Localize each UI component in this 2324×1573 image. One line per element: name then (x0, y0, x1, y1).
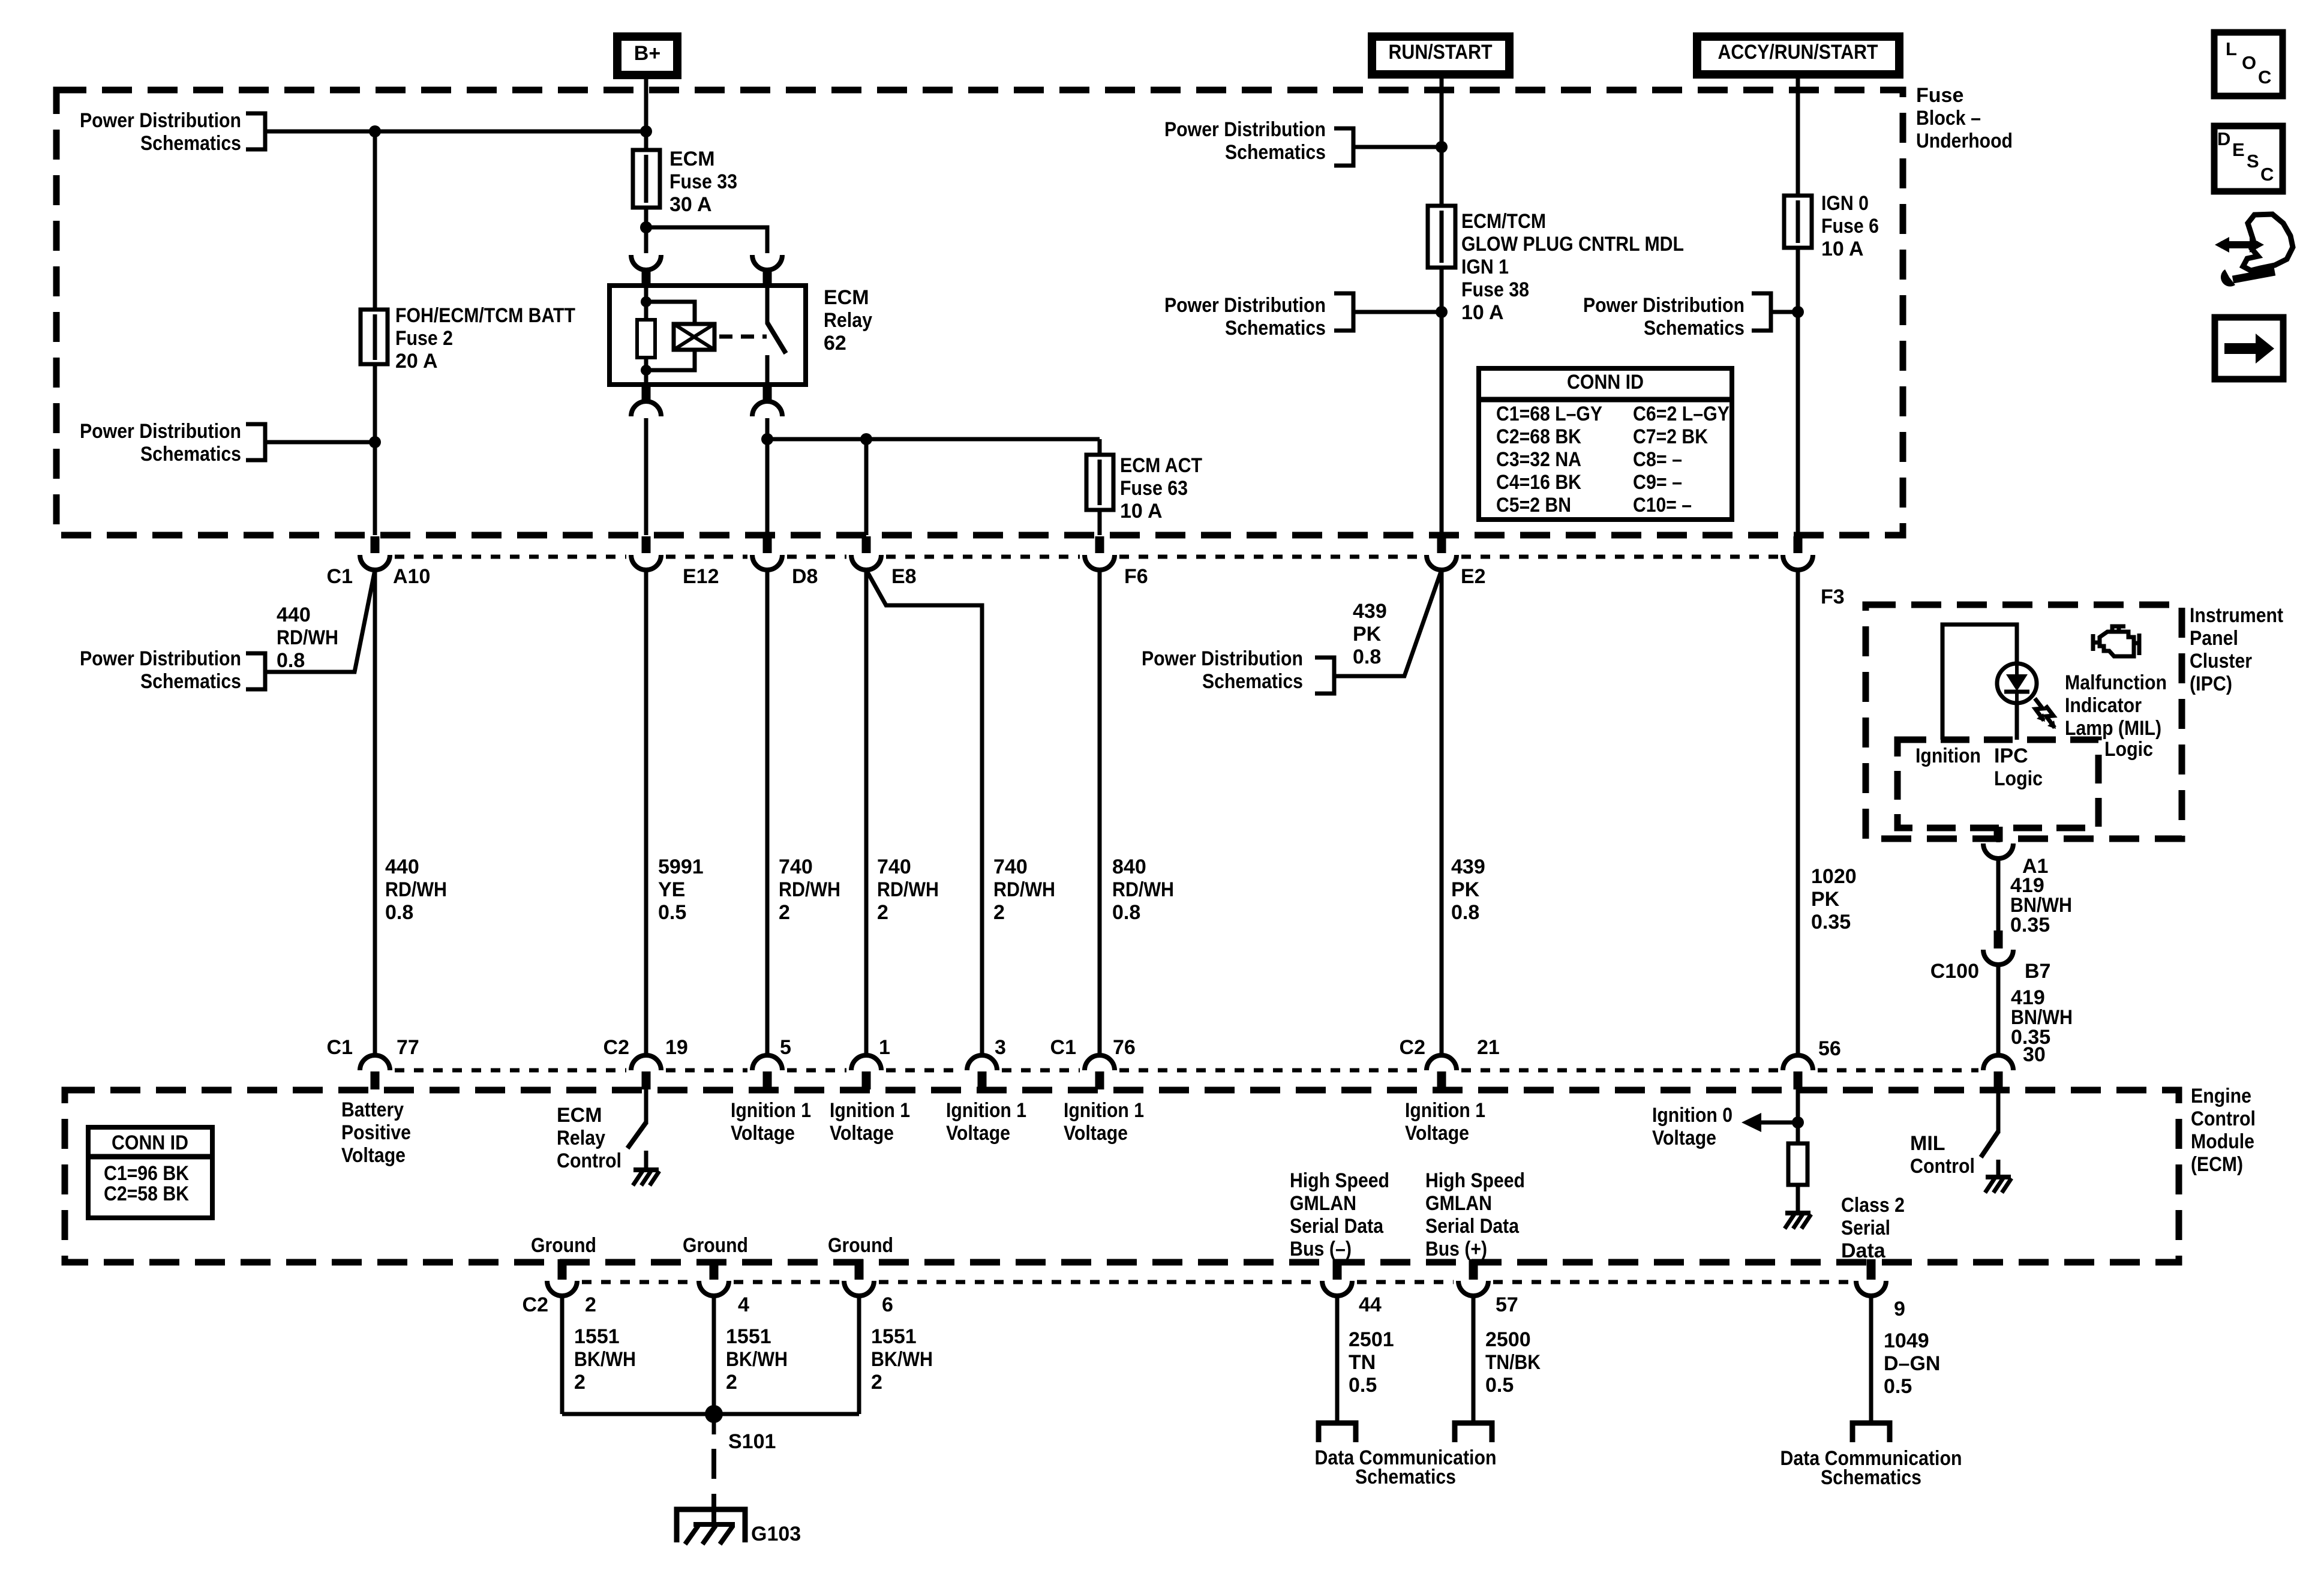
fuse F38 ECM/TCM GLOW PLUG (1428, 206, 1455, 268)
svg-text:Fuse 2: Fuse 2 (395, 327, 453, 350)
wire 440 RD/WH to ECM pin 77 (373, 569, 377, 1054)
svg-text:ECM ACT: ECM ACT (1120, 454, 1202, 477)
node junction below Fuse 38 (1436, 306, 1448, 318)
reference Power Distribution Schematics (RUN/START top) (1334, 128, 1353, 166)
svg-text:B+: B+ (634, 42, 660, 65)
svg-text:21: 21 (1477, 1036, 1500, 1059)
connector pin 5 ECM (752, 1055, 782, 1070)
svg-text:0.8: 0.8 (1451, 901, 1479, 924)
fuse F2 FOH/ECM/TCM BATT (361, 310, 388, 364)
svg-text:C9= –: C9= – (1633, 471, 1682, 494)
connector D8 fuse block (763, 536, 772, 553)
svg-text:4: 4 (738, 1293, 749, 1316)
svg-text:Voltage: Voltage (1652, 1127, 1716, 1149)
svg-text:D: D (2217, 128, 2230, 149)
svg-text:Bus (–): Bus (–) (1290, 1238, 1352, 1260)
svg-text:0.8: 0.8 (277, 649, 305, 672)
svg-text:Voltage: Voltage (341, 1144, 406, 1167)
IPC logic wire from LED (2015, 703, 2019, 740)
MIL indicator LED (1997, 664, 2037, 703)
LED light arrows (2035, 698, 2056, 729)
svg-text:ECM: ECM (824, 286, 869, 309)
svg-text:F6: F6 (1124, 565, 1148, 588)
svg-text:19: 19 (665, 1036, 688, 1059)
svg-text:2500: 2500 (1485, 1328, 1531, 1351)
svg-text:C: C (2260, 164, 2274, 185)
svg-text:0.5: 0.5 (658, 901, 686, 924)
svg-text:Power Distribution: Power Distribution (80, 109, 241, 132)
wire ACCY/RUN/START to Fuse 6 (1796, 74, 1800, 535)
wire relay bus to Fuse 63 (1098, 439, 1102, 535)
svg-text:Power Distribution: Power Distribution (1142, 647, 1303, 670)
splice S101 dashed wire (712, 1414, 716, 1434)
svg-text:(IPC): (IPC) (2190, 673, 2232, 695)
svg-text:Schematics: Schematics (1821, 1466, 1921, 1489)
svg-text:77: 77 (397, 1036, 419, 1059)
svg-text:C1: C1 (327, 565, 353, 588)
svg-text:Schematics: Schematics (140, 132, 241, 155)
svg-text:C3=32 NA: C3=32 NA (1496, 448, 1581, 471)
svg-text:Voltage: Voltage (731, 1122, 795, 1145)
svg-text:C100: C100 (1930, 960, 1979, 983)
svg-text:Control: Control (1910, 1155, 1975, 1178)
wire 1551 BK/WH pin 2 (560, 1295, 565, 1414)
connector A1 IPC (1983, 843, 2013, 858)
connector row ECM top (dotted) (395, 1068, 1978, 1073)
svg-text:D–GN: D–GN (1884, 1352, 1940, 1375)
reference Power Distribution Schematics (RUN/START bottom) (1334, 293, 1353, 331)
svg-text:0.5: 0.5 (1884, 1375, 1912, 1398)
wire 2500 TN/BK (1472, 1295, 1476, 1423)
svg-text:10 A: 10 A (1461, 301, 1504, 324)
svg-text:2: 2 (574, 1371, 585, 1394)
node junction at Fuse 33 feed (640, 125, 652, 137)
connector pin 2 ECM ground (558, 1259, 567, 1280)
svg-text:Ignition 0: Ignition 0 (1652, 1104, 1733, 1127)
relay U62 ECM Relay box (609, 286, 806, 385)
connector pin 77 ECM (360, 1055, 390, 1070)
wire branch to power distribution (440) (265, 570, 375, 672)
reference Power Distribution Schematics (mid left) (246, 424, 265, 460)
relay switch blade (765, 286, 770, 324)
svg-text:5991: 5991 (658, 855, 704, 878)
connector pin 30 ECM (1983, 1055, 2013, 1070)
off-page connector pin 9 (1852, 1423, 1890, 1442)
svg-text:Panel: Panel (2190, 627, 2238, 650)
svg-text:High Speed: High Speed (1290, 1169, 1389, 1192)
svg-text:B7: B7 (2025, 960, 2050, 983)
svg-text:Data: Data (1841, 1239, 1886, 1262)
ground at class 2 resistor (1785, 1211, 1810, 1215)
svg-text:Schematics: Schematics (1355, 1466, 1456, 1488)
svg-text:20 A: 20 A (395, 350, 438, 373)
svg-text:RD/WH: RD/WH (1112, 878, 1174, 901)
svg-text:Class 2: Class 2 (1841, 1194, 1905, 1217)
svg-text:Voltage: Voltage (830, 1122, 894, 1145)
svg-text:C2=68 BK: C2=68 BK (1496, 425, 1581, 448)
svg-text:Instrument: Instrument (2190, 604, 2283, 627)
svg-text:GMLAN: GMLAN (1290, 1192, 1356, 1215)
svg-text:Battery: Battery (341, 1098, 404, 1121)
svg-text:Bus (+): Bus (+) (1425, 1238, 1487, 1260)
connector pin 9 ECM (1867, 1259, 1876, 1280)
connector pin 1 ECM (851, 1055, 881, 1070)
wire 5991 YE to ECM pin 19 (644, 569, 648, 1054)
svg-text:1551: 1551 (726, 1325, 771, 1348)
IPC internal circuit loop (1942, 625, 2017, 740)
svg-text:30 A: 30 A (669, 193, 712, 216)
svg-text:PK: PK (1811, 888, 1840, 911)
svg-text:Engine: Engine (2191, 1085, 2251, 1107)
svg-text:57: 57 (1496, 1293, 1518, 1316)
icon forward arrow box (2215, 317, 2283, 379)
svg-text:Positive: Positive (341, 1121, 411, 1144)
svg-text:RD/WH: RD/WH (277, 626, 338, 649)
svg-text:TN/BK: TN/BK (1485, 1351, 1541, 1374)
svg-text:Ignition 1: Ignition 1 (946, 1099, 1026, 1122)
connector E12 fuse block (642, 536, 651, 553)
svg-text:Control: Control (2191, 1107, 2256, 1130)
wire pin 56 internal (1796, 1088, 1800, 1143)
svg-text:Cluster: Cluster (2190, 650, 2252, 673)
svg-text:E: E (2232, 139, 2245, 160)
connector pin 57 ECM (1469, 1259, 1478, 1280)
svg-text:(ECM): (ECM) (2191, 1153, 2243, 1176)
wire 439 PK to ECM pin 21 (1440, 569, 1444, 1054)
fuse F63 ECM ACT (1086, 455, 1113, 510)
svg-text:E2: E2 (1461, 565, 1486, 588)
connector pin 4 ECM ground (710, 1259, 719, 1280)
svg-text:C2: C2 (523, 1293, 548, 1316)
svg-text:E12: E12 (683, 565, 719, 588)
svg-text:Power Distribution: Power Distribution (80, 420, 241, 443)
svg-text:Fuse 38: Fuse 38 (1461, 278, 1529, 301)
wire branch E8 to pin 3 (866, 570, 982, 1054)
IPC logic dashed box (1897, 740, 2098, 828)
svg-text:2: 2 (993, 901, 1005, 924)
node junction below Fuse 33 (640, 221, 652, 233)
wire relay 85 to E12 (644, 418, 648, 535)
svg-text:S101: S101 (728, 1430, 776, 1453)
svg-text:High Speed: High Speed (1425, 1169, 1525, 1192)
relay terminal 87 socket (763, 385, 772, 401)
svg-text:3: 3 (995, 1036, 1006, 1059)
svg-text:C6=2 L–GY: C6=2 L–GY (1633, 403, 1730, 425)
svg-text:Fuse 33: Fuse 33 (669, 170, 737, 193)
svg-text:Ground: Ground (828, 1234, 893, 1257)
svg-text:G103: G103 (751, 1523, 801, 1545)
node relay coil bottom (641, 365, 651, 376)
svg-text:GLOW PLUG CNTRL MDL: GLOW PLUG CNTRL MDL (1461, 233, 1684, 256)
connector pin 76 ECM (1085, 1055, 1115, 1070)
connector A1 stub (1994, 827, 2003, 842)
svg-text:439: 439 (1451, 855, 1485, 878)
svg-text:10 A: 10 A (1120, 500, 1163, 523)
reference Power Distribution Schematics (ACCY) (1752, 293, 1771, 331)
wire drop to E8 (864, 439, 869, 535)
svg-text:C: C (2258, 67, 2271, 88)
svg-text:C1: C1 (1050, 1036, 1076, 1059)
svg-text:Relay: Relay (557, 1127, 605, 1149)
wire 1551 BK/WH pin 4 (712, 1295, 716, 1414)
svg-text:Schematics: Schematics (140, 670, 241, 693)
svg-text:C1: C1 (327, 1036, 353, 1059)
svg-text:2501: 2501 (1349, 1328, 1394, 1351)
wire to relay switch side (646, 227, 767, 253)
IPC dashed box (1866, 605, 2182, 839)
svg-text:Fuse 63: Fuse 63 (1120, 477, 1188, 500)
svg-text:Logic: Logic (2104, 738, 2153, 761)
ground bus wire (562, 1412, 859, 1416)
svg-text:6: 6 (882, 1293, 893, 1316)
connector pin 3 ECM (967, 1055, 997, 1070)
svg-text:5: 5 (780, 1036, 791, 1059)
svg-text:BK/WH: BK/WH (871, 1348, 933, 1371)
wire resistor to ground (1796, 1185, 1800, 1213)
wire 740 RD/WH D8 to pin 5 (765, 569, 770, 1054)
off-page connector pin 57 (1455, 1423, 1492, 1442)
svg-text:ECM: ECM (557, 1104, 602, 1127)
wire relay 87 to D8 (765, 418, 770, 535)
fuse block underhood dashed box (56, 90, 1903, 535)
svg-text:Ground: Ground (683, 1234, 748, 1257)
svg-text:CONN ID: CONN ID (112, 1131, 188, 1154)
svg-text:BK/WH: BK/WH (574, 1348, 636, 1371)
svg-text:RD/WH: RD/WH (385, 878, 447, 901)
icon hand with wrench (2215, 214, 2293, 287)
connector row C1/C2 fuse block (dotted) (395, 555, 1778, 559)
svg-text:RD/WH: RD/WH (877, 878, 939, 901)
node relay coil top (641, 296, 651, 307)
power feed ACCY/RUN/START (1697, 37, 1899, 74)
svg-text:56: 56 (1818, 1037, 1841, 1060)
svg-text:740: 740 (877, 855, 911, 878)
connector E8 fuse block (862, 536, 871, 553)
svg-text:IGN 0: IGN 0 (1821, 192, 1869, 215)
connector pin 56 ECM (1783, 1055, 1813, 1070)
node junction relay output (761, 433, 773, 445)
svg-text:2: 2 (871, 1371, 882, 1394)
svg-text:BK/WH: BK/WH (726, 1348, 788, 1371)
node junction at Fuse 2 feed (369, 125, 381, 137)
reference Power Distribution Schematics (top left) (246, 113, 265, 149)
svg-text:Voltage: Voltage (946, 1122, 1010, 1145)
svg-text:9: 9 (1894, 1298, 1905, 1320)
ECM relay control switch (644, 1088, 648, 1124)
svg-text:D8: D8 (792, 565, 818, 588)
wire RUN/START to Fuse 38 (1440, 74, 1444, 535)
ground at MIL control (1986, 1175, 2011, 1179)
connector A10 fuse block (371, 536, 380, 553)
svg-text:C2: C2 (603, 1036, 629, 1059)
svg-text:Serial Data: Serial Data (1425, 1215, 1520, 1238)
svg-text:Serial Data: Serial Data (1290, 1215, 1384, 1238)
svg-text:L: L (2226, 38, 2237, 59)
svg-text:1551: 1551 (871, 1325, 917, 1348)
svg-text:Schematics: Schematics (1202, 670, 1303, 693)
svg-text:740: 740 (779, 855, 813, 878)
svg-text:C2: C2 (1400, 1036, 1425, 1059)
svg-text:RD/WH: RD/WH (993, 878, 1055, 901)
relay coil winding box (646, 302, 695, 324)
wire B+ feed horizontal (265, 130, 646, 134)
svg-text:FOH/ECM/TCM BATT: FOH/ECM/TCM BATT (395, 304, 575, 327)
svg-text:O: O (2242, 52, 2256, 73)
svg-text:Fuse: Fuse (1916, 84, 1963, 107)
svg-text:GMLAN: GMLAN (1425, 1192, 1492, 1215)
svg-text:Schematics: Schematics (1225, 317, 1326, 340)
off-page connector pin 44 (1319, 1423, 1356, 1442)
connector pin 19 ECM (631, 1055, 661, 1070)
wire B+ to ECM relay (644, 75, 648, 253)
wire 740 RD/WH E8 to pin 1 (864, 569, 869, 1054)
relay coil branch wires (644, 286, 648, 320)
svg-text:YE: YE (658, 878, 685, 901)
icon DESC box (2214, 126, 2283, 191)
svg-text:C10= –: C10= – (1633, 494, 1692, 517)
svg-text:Logic: Logic (1994, 767, 2043, 790)
fuse F33 ECM (633, 150, 660, 208)
wire 419 BN/WH upper (1996, 858, 2001, 948)
connector row ECM bottom (dotted) (582, 1280, 1851, 1284)
relay terminal 85 socket (642, 385, 651, 401)
fuse F6 IGN 0 (1784, 196, 1812, 248)
svg-text:440: 440 (385, 855, 419, 878)
wire 2501 TN (1335, 1295, 1340, 1423)
svg-text:PK: PK (1353, 623, 1382, 646)
svg-text:1: 1 (879, 1036, 890, 1059)
svg-text:440: 440 (277, 604, 311, 626)
svg-text:Ignition: Ignition (1915, 745, 1981, 767)
svg-text:A10: A10 (393, 565, 430, 588)
svg-text:IGN 1: IGN 1 (1461, 256, 1509, 278)
svg-text:C1=96 BK: C1=96 BK (104, 1162, 189, 1185)
svg-text:0.5: 0.5 (1349, 1374, 1377, 1397)
connector pin 21 ECM (1427, 1055, 1457, 1070)
svg-text:Power Distribution: Power Distribution (80, 647, 241, 670)
svg-text:Ignition 1: Ignition 1 (731, 1099, 811, 1122)
wire relay output bus (767, 437, 1100, 442)
ECM dashed box (65, 1090, 2179, 1262)
svg-text:1049: 1049 (1884, 1329, 1929, 1352)
svg-text:ECM: ECM (669, 148, 715, 170)
svg-text:62: 62 (824, 332, 846, 355)
node junction below Fuse 6 (1792, 306, 1804, 318)
svg-text:Fuse 6: Fuse 6 (1821, 215, 1879, 238)
svg-text:C2=58 BK: C2=58 BK (104, 1182, 189, 1205)
power feed B+ (617, 37, 677, 75)
svg-text:Relay: Relay (824, 309, 872, 332)
svg-text:30: 30 (2023, 1043, 2046, 1066)
svg-text:0.35: 0.35 (2010, 914, 2050, 936)
svg-text:IPC: IPC (1994, 745, 2028, 767)
reference Power Distribution Schematics (A10 branch) (246, 653, 265, 689)
connector E2 fuse block (1437, 536, 1446, 553)
svg-text:Lamp (MIL): Lamp (MIL) (2065, 717, 2161, 740)
svg-text:ECM/TCM: ECM/TCM (1461, 210, 1546, 233)
svg-text:0.8: 0.8 (1112, 901, 1140, 924)
svg-text:Power Distribution: Power Distribution (1164, 118, 1326, 141)
node junction below Fuse 2 (369, 436, 381, 448)
svg-text:Block –: Block – (1916, 107, 1981, 130)
relay actuation dashed link (719, 335, 767, 339)
svg-text:F3: F3 (1821, 586, 1845, 608)
svg-text:1020: 1020 (1811, 865, 1857, 888)
ground at relay control (633, 1167, 659, 1172)
svg-text:76: 76 (1113, 1036, 1136, 1059)
wire 840 RD/WH to pin 76 (1098, 569, 1102, 1054)
svg-text:C1=68 L–GY: C1=68 L–GY (1496, 403, 1602, 425)
svg-text:2: 2 (726, 1371, 737, 1394)
svg-text:E8: E8 (891, 565, 917, 588)
wire 1551 BK/WH pin 6 (857, 1295, 861, 1414)
icon LOC box (2214, 32, 2283, 96)
node splice S101 (705, 1405, 723, 1423)
wire branch E2 to power distribution (439) (1334, 570, 1442, 676)
wire IPC logic to connector A1 (1996, 828, 2001, 842)
svg-text:Malfunction: Malfunction (2065, 671, 2167, 694)
svg-text:Ignition 1: Ignition 1 (1064, 1099, 1144, 1122)
svg-text:0.8: 0.8 (385, 901, 413, 924)
resistor class 2 pull-up (1788, 1143, 1807, 1185)
svg-text:C7=2 BK: C7=2 BK (1633, 425, 1708, 448)
wire Fuse 2 column (373, 131, 377, 535)
connector F3 fuse block (1794, 536, 1803, 553)
svg-text:Schematics: Schematics (1644, 317, 1744, 340)
svg-text:ACCY/RUN/START: ACCY/RUN/START (1718, 41, 1878, 64)
svg-text:1551: 1551 (574, 1325, 620, 1348)
connector pin 6 ECM ground (855, 1259, 864, 1280)
svg-text:PK: PK (1451, 878, 1480, 901)
wire 1049 D-GN (1869, 1295, 1873, 1423)
MIL control switch (1996, 1088, 2001, 1133)
svg-text:2: 2 (877, 901, 888, 924)
svg-text:Serial: Serial (1841, 1217, 1890, 1239)
svg-text:Schematics: Schematics (1225, 141, 1326, 164)
ground G103 (677, 1509, 745, 1542)
svg-text:Indicator: Indicator (2065, 694, 2142, 717)
svg-text:RD/WH: RD/WH (779, 878, 840, 901)
svg-text:Ignition 1: Ignition 1 (1405, 1099, 1485, 1122)
wire 1020 PK to ECM pin 56 (1796, 569, 1800, 1054)
svg-text:2: 2 (585, 1293, 596, 1316)
ECM CONN ID table (88, 1127, 212, 1218)
svg-text:C4=16 BK: C4=16 BK (1496, 471, 1581, 494)
relay terminal 86 socket (631, 255, 661, 270)
svg-text:Ground: Ground (531, 1234, 596, 1257)
relay coil resistor (637, 320, 655, 358)
node junction RUN/START top (1436, 141, 1448, 153)
svg-text:MIL: MIL (1910, 1132, 1945, 1155)
node junction ignition 0 (1792, 1116, 1804, 1128)
svg-text:Voltage: Voltage (1064, 1122, 1128, 1145)
node junction to E8 (860, 433, 872, 445)
power feed RUN/START (1372, 37, 1509, 74)
svg-text:TN: TN (1349, 1351, 1376, 1374)
wire 419 BN/WH lower (1996, 964, 2001, 1054)
svg-text:C8= –: C8= – (1633, 448, 1682, 471)
svg-text:Underhood: Underhood (1916, 130, 2013, 152)
fuse block CONN ID table (1479, 368, 1732, 520)
svg-text:840: 840 (1112, 855, 1146, 878)
svg-text:Power Distribution: Power Distribution (1164, 294, 1326, 317)
svg-text:RUN/START: RUN/START (1389, 41, 1493, 64)
svg-text:Control: Control (557, 1149, 621, 1172)
svg-text:0.8: 0.8 (1353, 646, 1381, 668)
svg-text:0.5: 0.5 (1485, 1374, 1514, 1397)
svg-text:Module: Module (2191, 1130, 2254, 1153)
svg-text:Ignition 1: Ignition 1 (830, 1099, 910, 1122)
